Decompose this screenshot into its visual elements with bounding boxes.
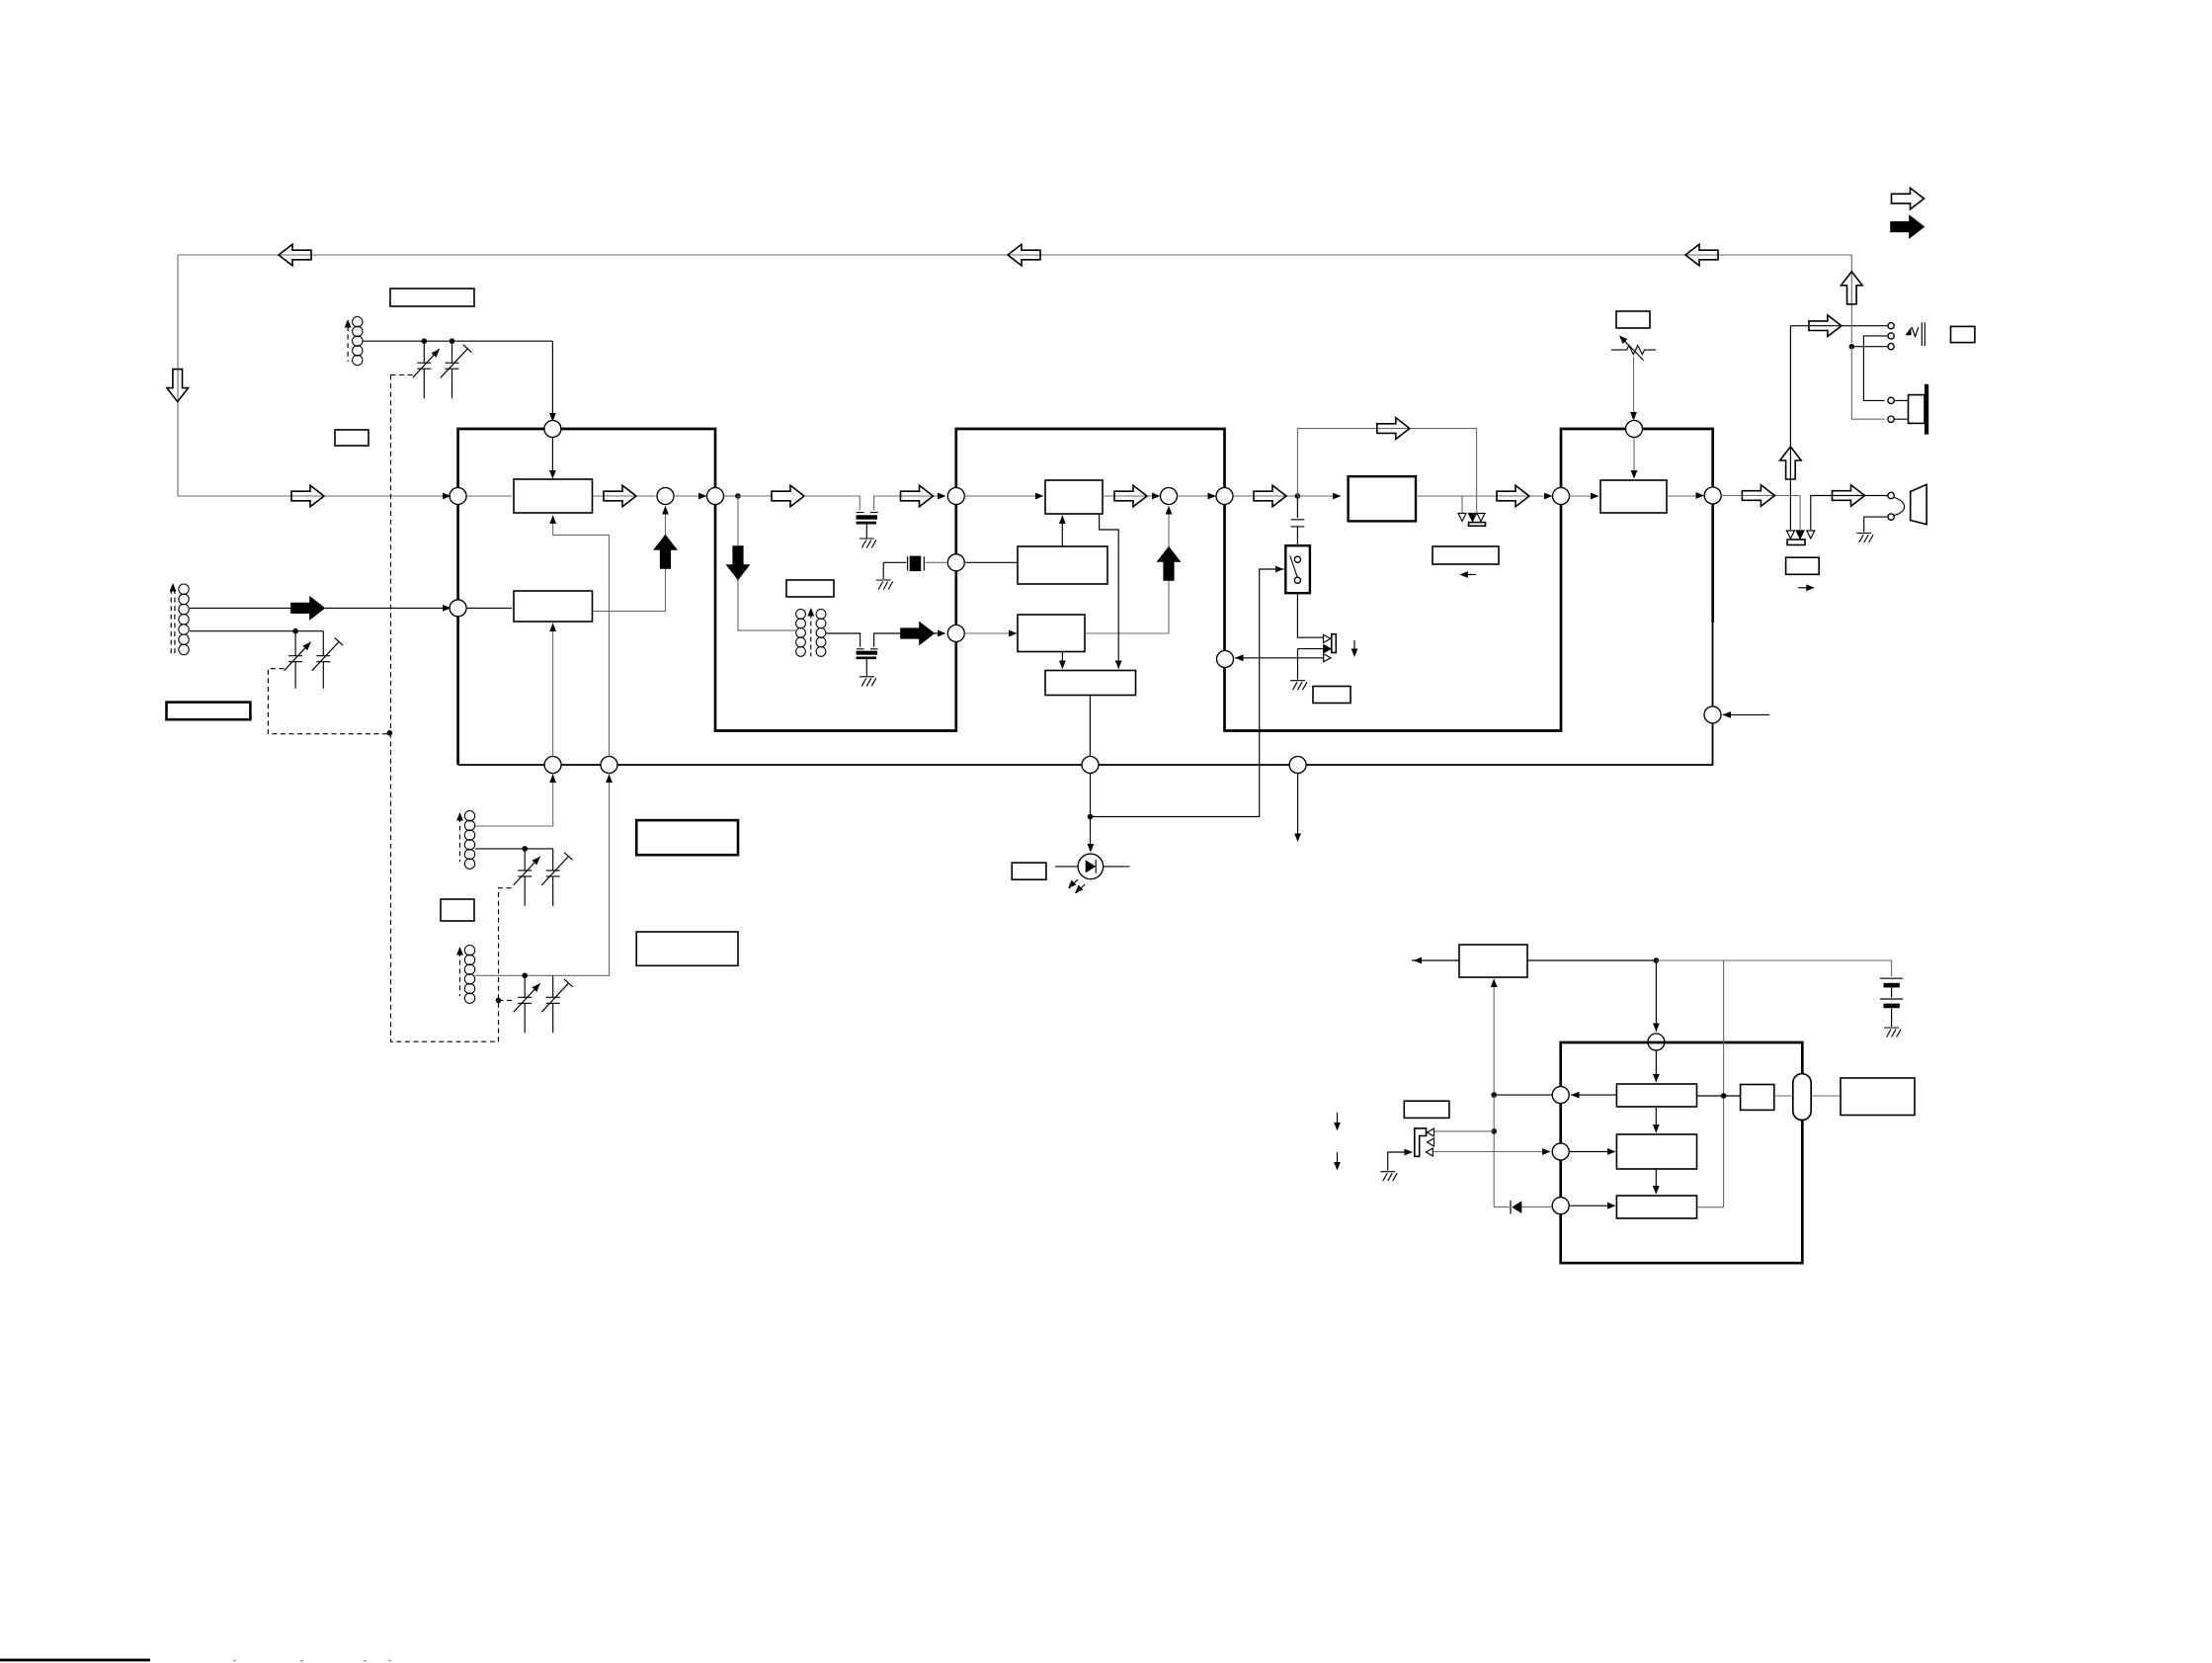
diode D2 (1510, 1201, 1512, 1214)
legend arrow open (1892, 188, 1925, 209)
wire rail down to diode (1494, 1095, 1509, 1206)
crystal resonator X1 (883, 561, 906, 563)
wire crystal to IC2 pin (926, 561, 947, 563)
wire set jack line 2 (1433, 1151, 1549, 1153)
wire to HP contact3 (1851, 346, 1887, 348)
wire earphone ground leg (1864, 517, 1888, 532)
label box IF (786, 580, 834, 597)
wire top pin to RF amp (551, 438, 553, 478)
wire IC2 out (1233, 495, 1297, 497)
wire top feedback riser (1850, 255, 1852, 343)
wire comparator loop to crystal line (1697, 960, 1724, 1207)
pin circle AF IC output (1704, 487, 1721, 504)
junction dot LED / switch line (1088, 814, 1094, 820)
small arrow right under speaker label (1798, 587, 1812, 589)
earphone symbol (1888, 492, 1894, 498)
pin circle IC3 top (1648, 1034, 1665, 1050)
block reference oscillator (1018, 546, 1107, 584)
wire jack ground leg (1298, 648, 1324, 650)
arrowhead into IC1 pin (443, 493, 451, 500)
wire riser down to speaker B (1851, 347, 1884, 420)
AM ferrite rod antenna dashed core with up arrow (171, 589, 175, 654)
FM antenna coil L1 (353, 317, 363, 366)
wire det out (1416, 495, 1546, 497)
arrow right on bypass line (1377, 418, 1410, 440)
wire AGC feedback to RF amp (553, 516, 610, 757)
dashed junction dot gang (387, 730, 393, 736)
label box osc AM (636, 932, 738, 965)
pin circle IC bottom (AFC) (1289, 757, 1306, 774)
arrow right phones line (1809, 315, 1842, 337)
arrow left on top line (right) (1685, 244, 1718, 266)
wire meter line from jack to IC2 pin (1235, 657, 1324, 659)
junction dot FM tuning cap CT1 (422, 338, 428, 344)
capacitor C-AFC (1296, 496, 1298, 518)
label box FM osc (441, 899, 474, 921)
pin circle AF IC input (1553, 488, 1570, 505)
arrow right after IC2 (1254, 485, 1286, 507)
wire IF amp tap down to counter (1100, 514, 1119, 669)
trimmer capacitor CT2 (FM) (446, 341, 459, 398)
wire AM det out to mixer node up (1085, 506, 1169, 633)
wire CF2 out (874, 633, 941, 647)
ground CF2 (860, 677, 876, 687)
backup capacitor C1 (1880, 977, 1903, 979)
plug insert arrow at J1 (1353, 640, 1355, 654)
pin circle IC2 crystal (947, 554, 964, 571)
pin circle IC1 output (707, 488, 724, 505)
wire AF amp out (1667, 495, 1703, 497)
test point pad det (1469, 523, 1486, 527)
wire divider to counter (1655, 1107, 1657, 1132)
block alarm comparator (1616, 1196, 1696, 1218)
wire down to IC3 top pin (1655, 960, 1657, 1032)
variable capacitor CT1 (FM tuning) (417, 341, 431, 398)
wire AM det down to counter (1061, 652, 1063, 669)
label box speaker out (1786, 557, 1820, 574)
wire pin to supply rail (1494, 1094, 1552, 1096)
wire crystal to display driver (1811, 1095, 1841, 1097)
wire into osc block (1655, 1050, 1657, 1082)
small down arrow indicator 1 (1337, 1113, 1339, 1127)
switch S1 contacts and lever (1294, 556, 1300, 562)
trimmer capacitor CT6 (FM osc) (546, 849, 560, 906)
ground CF1 (860, 539, 876, 548)
variable capacitor CT3 (AM tuning) (288, 631, 302, 689)
arrow right to FM IF filter (772, 485, 804, 507)
wire HP contact2 to speaker (1863, 336, 1887, 401)
junction dot HP contact3 (1849, 344, 1855, 350)
wire AM IF to det block (964, 632, 1016, 634)
block stop detector / counter (1045, 671, 1136, 696)
arrow right after RF amp (604, 485, 636, 507)
wire R1 to junction (1527, 959, 1656, 961)
block display driver (1841, 1078, 1915, 1116)
junction dot det in (1295, 493, 1301, 499)
block AM converter (514, 591, 593, 622)
headphone jack HP contacts (1888, 323, 1894, 329)
det test point triangles and pad (1458, 514, 1466, 522)
wire to AF amp block (1570, 495, 1598, 497)
pin circle detector node (1161, 488, 1178, 505)
wire divider to crystal (1697, 1095, 1741, 1097)
LED D1 (tune indicator) (1078, 854, 1104, 879)
label box LED (1012, 863, 1046, 879)
block FM discriminator (1349, 476, 1416, 521)
wire pin to comparator (1569, 1205, 1614, 1206)
wire pot wiper down (1633, 357, 1635, 419)
wire AF out (1721, 495, 1800, 497)
wire osc coil tap to caps (475, 848, 553, 850)
small down arrow indicator 2 (1337, 1152, 1339, 1167)
dashed link AM cap (268, 669, 389, 734)
wire AM conv out up to mixer node (593, 506, 666, 612)
junction dot FM trimmer CT2 (450, 338, 455, 344)
wire osc coil to IC1 pin (475, 774, 553, 827)
arrow left on top line (left) (279, 244, 311, 266)
junction dot FM IF (735, 493, 741, 499)
arrow right into IC2 (901, 485, 934, 507)
branch to det test point (1461, 496, 1463, 513)
arrow down on left vertical (167, 370, 189, 402)
wire counter to bottom pin (1089, 696, 1091, 757)
wire FM coil to IC1 top (363, 340, 552, 342)
junction dot osc tuning cap (522, 846, 528, 852)
wire RF amp out (593, 495, 656, 497)
wire FM IF junction down to IFT (738, 496, 795, 630)
wire pin to ref osc block (964, 561, 1018, 563)
jack J1 triangles and bar (1324, 634, 1331, 642)
block crystal buffer (1741, 1085, 1774, 1111)
wire phones line (1790, 325, 1887, 327)
junction dot clock supply (1654, 957, 1660, 963)
wire tune LED feed (1090, 774, 1092, 852)
variable capacitor CT7 (AM osc) (518, 975, 532, 1033)
headphone jack pad triangles (1786, 531, 1794, 539)
arrow down filled to IFT (727, 546, 749, 579)
wire to IF amp block (964, 495, 1035, 497)
dashed link osc cap (499, 999, 514, 1001)
ceramic filter CF2 (AM IF) (857, 648, 878, 650)
block oscillator divider (1616, 1084, 1696, 1107)
arrow right after IF amp (1114, 485, 1147, 507)
small arrow left under det label (1461, 574, 1476, 576)
wire AM coil to IC1 (190, 607, 450, 609)
pin circle AF IC bottom right (1704, 707, 1721, 723)
arrow up to phones (1780, 447, 1802, 479)
arrow right filled AM IF into IC2 (901, 623, 934, 644)
pin circle IC2 output (1216, 488, 1233, 505)
ground J2 (1380, 1172, 1397, 1182)
ground J1 (1290, 681, 1307, 691)
trimmer capacitor CT4 (AM) (316, 631, 330, 689)
IC3 clock IC outline (1561, 1042, 1803, 1263)
junction dot AM osc tuning cap (522, 973, 528, 979)
label box jack (1951, 326, 1975, 342)
jack J1 bar (1332, 634, 1337, 653)
alarm set jack J2 (1415, 1128, 1427, 1156)
wire set jack line 1 (1434, 1130, 1495, 1132)
pin circle IC3 set input (1552, 1143, 1569, 1160)
block clock driver R1 (1459, 945, 1527, 977)
FM osc coil dashed lead (459, 817, 461, 862)
IC block outline (IF/tuner IC) left and middle towers (458, 429, 1713, 765)
ceramic filter CF1 (FM IF) (857, 512, 878, 514)
wire counter to comparator (1655, 1169, 1657, 1194)
IF transformer T1 left winding (796, 610, 806, 657)
pin circle IC3 osc out (1552, 1087, 1569, 1104)
ground backup caps (1884, 1028, 1901, 1038)
wire pin to FM RF amp (466, 495, 512, 497)
pin circle IC3 alarm out (1552, 1198, 1569, 1214)
dashed link FM cap (391, 374, 414, 375)
speaker SP1 coil body (1909, 395, 1925, 424)
wire switch to jack (1297, 593, 1323, 637)
label box volume (1616, 311, 1650, 328)
wire AM tank to converter (552, 624, 554, 757)
ground earphone (1856, 534, 1873, 543)
volume potentiometer VR1 (1611, 346, 1656, 355)
junction dot crystal drive (1721, 1093, 1727, 1099)
block FM RF amp (514, 479, 593, 513)
arrow right on main input row (291, 485, 324, 507)
block AM detector (1018, 615, 1085, 652)
pin circle IC2 FM IF input (947, 488, 964, 505)
trimmer capacitor CT8 (AM osc) (546, 975, 560, 1033)
wire into IC1 input (178, 495, 450, 497)
supply rail to clock (1493, 979, 1495, 1096)
wire AM osc to IC1 pin (475, 774, 610, 976)
wire IF amp out (1103, 495, 1152, 497)
wire pin to counter (1569, 1151, 1614, 1153)
pin circle IC bottom (tune LED) (1082, 757, 1099, 774)
pin circle IC1 top (FM tank) (544, 421, 561, 438)
crystal resonator capsule on IC3 edge (1793, 1074, 1811, 1121)
wire pin to AM conv (466, 607, 512, 609)
wire clock top line (1412, 959, 1459, 961)
wire speaker feed from jack break (1811, 496, 1888, 531)
wire top feedback line (178, 254, 1851, 256)
label box det out (1433, 546, 1499, 564)
pin circle FM mixer node (657, 488, 674, 505)
wire monitor line up to phones line (1789, 326, 1791, 530)
stub arrow into AF IC right pin (1723, 713, 1770, 715)
arrow right AF output (1742, 485, 1774, 507)
pin circle IC2 meter drive (1217, 651, 1234, 668)
wire diode to alarm pin (1521, 1206, 1552, 1207)
label box AM antenna (167, 703, 251, 720)
switch S1 (band) (1285, 545, 1310, 593)
switch control line from LED node (1091, 569, 1284, 817)
arrow right into AF IC (1497, 485, 1529, 507)
wire IC1 out (724, 495, 739, 497)
pin circle IC1 bottom (AGC) (601, 757, 617, 774)
block clock counter (1616, 1134, 1696, 1169)
label box FM tuner (390, 289, 474, 306)
AM osc coil L4 (464, 946, 474, 1004)
label box set (1404, 1101, 1449, 1118)
bypass line over detector (1297, 429, 1476, 513)
block FM IF amp (1045, 480, 1103, 514)
variable capacitor CT5 (FM osc) (518, 849, 532, 906)
wire AFC pin down arrow (1297, 774, 1299, 840)
wire left vertical feed (177, 255, 179, 496)
wire AF out to jack pad (1799, 496, 1801, 531)
AM osc coil dashed lead (459, 952, 461, 996)
IF transformer dashed core with up arrow (810, 614, 812, 657)
pin circle IC1 FM input (450, 488, 466, 505)
LED light arrows (1069, 879, 1085, 893)
dashed gang vertical upper (390, 374, 392, 732)
wire AM coil tap to tuning caps (190, 630, 323, 632)
footer rule (0, 1659, 150, 1662)
dashed junction dot osc gang (496, 998, 502, 1004)
headphone jack plug symbol (1905, 327, 1911, 335)
FM antenna dashed lead with up arrow (347, 326, 349, 362)
dashed gang vertical lower (391, 733, 515, 1041)
IC bottom bus line (458, 623, 1713, 765)
wire down into IC1 top pin (551, 341, 553, 420)
backup capacitor C2 (1880, 998, 1903, 1000)
legend arrow filled (1891, 216, 1924, 238)
FM osc coil L3 (464, 811, 474, 870)
AM antenna coil L2 (179, 584, 189, 655)
arrow right filled AM row (291, 598, 324, 620)
pin circle IC1 AM input (450, 600, 466, 617)
label box RF (335, 430, 369, 446)
arrow up filled AM IF injection (655, 536, 677, 568)
speaker SP1 (1888, 397, 1894, 403)
junction dot rail set line (1491, 1128, 1497, 1134)
wire crystal to ground (882, 562, 884, 579)
wire IFT out to filter CF2 (826, 633, 860, 647)
wire ref osc up to IF amp (1061, 516, 1063, 547)
block AF power amp (1600, 480, 1667, 513)
arrow left on top line (middle) (1008, 244, 1040, 266)
label box J1 (1313, 687, 1351, 704)
wire J2 ground (1388, 1152, 1411, 1171)
pin circle IC1 bottom (AM tank) (544, 757, 561, 774)
IF transformer T1 right winding (816, 610, 826, 657)
wire volume pin to AF amp (1633, 438, 1635, 478)
wire osc block to pin with arrow (1571, 1094, 1616, 1096)
wire to IC1 out pin (674, 495, 705, 497)
arrow up on feedback riser (1842, 272, 1863, 304)
label box osc FM (636, 820, 738, 855)
headphone jack pad (1787, 540, 1805, 545)
wire into ceramic filter CF1 (804, 496, 860, 511)
junction dot rail osc (1491, 1092, 1497, 1098)
junction dot AM tuning cap (292, 628, 298, 634)
arrow up filled AM audio (1158, 547, 1180, 580)
wire supply to backup caps (1656, 960, 1891, 976)
pin circle AF IC volume (1626, 421, 1643, 438)
arrow right to speaker (1833, 485, 1865, 507)
pin circle IC2 AM IF input (947, 625, 964, 642)
wire buffer to crystal (1774, 1095, 1793, 1097)
wire CF1 out (874, 496, 941, 511)
